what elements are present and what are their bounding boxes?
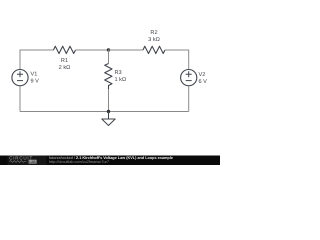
resistor R2 <box>143 46 165 53</box>
svg-text:R3: R3 <box>115 70 122 76</box>
svg-text:V2: V2 <box>199 72 206 78</box>
node A junction dot <box>107 48 110 51</box>
wire: V2 bottom to bottom rail <box>188 86 190 112</box>
svg-text:futureshocked / 2.1 Kirchhoff': futureshocked / 2.1 Kirchhoff's Voltage … <box>49 156 173 160</box>
svg-text:3 kΩ: 3 kΩ <box>148 36 160 43</box>
CircuitLab logo LAB badge <box>29 160 37 164</box>
wire: R1 to node A <box>76 49 109 51</box>
wire: node A to R2 <box>109 49 144 51</box>
ground <box>102 112 115 126</box>
svg-text:V1: V1 <box>31 71 38 77</box>
wire: bottom rail <box>20 111 189 113</box>
voltage source V2 <box>181 70 197 86</box>
svg-text:9 V: 9 V <box>31 78 40 84</box>
svg-text:2 kΩ: 2 kΩ <box>59 64 71 71</box>
node B junction dot <box>107 110 110 113</box>
resistor R1 <box>54 46 76 53</box>
CircuitLab logo box <box>8 156 47 166</box>
wire: R3 to bottom rail <box>108 89 110 112</box>
CircuitLab logo zigzag <box>9 161 26 163</box>
resistor R3 <box>105 64 112 90</box>
svg-text:6 V: 6 V <box>199 79 208 85</box>
wire: top-left segment from V1 top to R1 <box>20 50 54 70</box>
wire: V1 bottom to bottom rail <box>19 86 21 112</box>
wire: node A down to R3 <box>108 50 110 64</box>
svg-text:http://circuitlab.com/cu2fmans: http://circuitlab.com/cu2fmansn7ur7 <box>49 160 109 164</box>
footer bar <box>0 156 220 166</box>
wire: R2 to V2 top <box>165 50 189 70</box>
svg-text:LAB: LAB <box>29 160 36 164</box>
voltage source V1 <box>12 70 28 86</box>
svg-text:1 kΩ: 1 kΩ <box>115 76 127 83</box>
svg-text:R1: R1 <box>61 58 68 64</box>
svg-text:R2: R2 <box>150 30 157 36</box>
